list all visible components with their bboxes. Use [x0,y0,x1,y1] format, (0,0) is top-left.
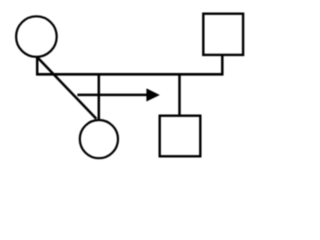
wire left vertical stub from circle to marriage line [36,57,39,75]
wire drop to bottom square [178,73,181,115]
wire right vertical stub from square to marriage line [221,56,224,75]
wire marriage horizontal line [36,73,224,76]
square (top-right male) [203,14,243,55]
circle daughter (bottom female) [80,120,118,158]
circle grandmother (top-left female) [16,16,57,57]
square son (bottom male) [160,116,201,157]
wire drop to bottom circle [98,73,101,119]
wire diagonal from top circle to bottom circle [37,57,96,119]
arrow shaft [77,94,148,97]
arrow head [146,88,159,101]
